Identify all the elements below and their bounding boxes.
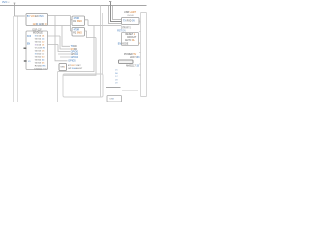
SW1 label rows right — [68, 65, 83, 70]
wire long vertical bus B — [17, 17, 19, 103]
power flag — [14, 3, 16, 6]
svg-text:EN NODE: EN NODE — [118, 44, 129, 46]
wire top-right verticals to header — [109, 6, 122, 24]
wire stub y54 — [58, 53, 70, 55]
svg-text:CIRCUIT: CIRCUIT — [127, 37, 137, 39]
svg-text:IO: IO — [28, 61, 31, 63]
wire R2 right run — [63, 31, 96, 75]
wire bottom-left drop — [57, 72, 59, 102]
svg-text:TXD000 TXD: TXD000 TXD — [34, 68, 47, 70]
svg-text:GIO00 00: GIO00 00 — [35, 57, 45, 59]
R2 series block — [72, 28, 85, 37]
svg-text:470R: 470R — [74, 30, 80, 32]
wire rail drop to U1 left pin — [15, 6, 25, 17]
wire U2 pin stub y36 — [48, 36, 71, 49]
U2 module tall box — [26, 31, 48, 70]
U2 left pin stub 2 — [24, 60, 27, 62]
svg-text:BT RST KEY: BT RST KEY — [68, 65, 81, 67]
left blue pin labels column — [115, 70, 119, 85]
svg-text:AUTO DL: AUTO DL — [125, 39, 136, 42]
svg-text:GIO15 15: GIO15 15 — [35, 51, 45, 53]
wire net drop x55 — [55, 16, 68, 61]
svg-text:R1 SMD: R1 SMD — [73, 21, 82, 23]
svg-text:GIO05 05: GIO05 05 — [35, 63, 45, 65]
wire net drop x62 — [62, 26, 70, 47]
svg-text:USB UART: USB UART — [124, 11, 137, 14]
svg-text:IOD02 02: IOD02 02 — [35, 54, 45, 56]
svg-text:5V VIN EN 3V3: 5V VIN EN 3V3 — [27, 15, 44, 18]
svg-text:GIO14 14: GIO14 14 — [35, 39, 45, 41]
wire stub y57 — [60, 56, 70, 58]
U2 left pin stub 1 — [24, 47, 27, 49]
svg-text:CH340: CH340 — [127, 15, 135, 17]
svg-text:3V3: 3V3 — [27, 36, 32, 38]
wire U1 right top — [48, 15, 71, 17]
svg-text:RXD00 RX: RXD00 RX — [35, 66, 46, 68]
J1 right stub — [139, 20, 141, 22]
U1 regulator box — [26, 14, 48, 26]
J3 bottom connector box — [107, 96, 122, 103]
J2 pin ticks — [139, 22, 140, 75]
svg-text:EN: EN — [27, 43, 31, 45]
svg-text:VCC33 3V: VCC33 3V — [35, 48, 46, 50]
R3 flat bar component — [119, 60, 134, 63]
svg-text:USB: USB — [110, 98, 115, 100]
svg-text:AMS1117 33: AMS1117 33 — [126, 64, 140, 67]
svg-text:IOD13 13: IOD13 13 — [35, 45, 45, 47]
SW1 small box — [59, 64, 67, 71]
U3 block box — [122, 33, 139, 46]
U2 right pin rows — [34, 36, 47, 71]
svg-text:MODULE: MODULE — [33, 32, 43, 34]
wire R1 right — [85, 20, 122, 26]
PCB outline big box — [63, 74, 103, 97]
svg-text:ESP-12F: ESP-12F — [33, 29, 43, 31]
wire vertical junction x70.5 — [71, 16, 73, 32]
wire faint long vertical pair — [100, 6, 102, 97]
wire U1 right bottom — [48, 25, 71, 27]
wire long vertical bus A — [13, 16, 15, 102]
wire right descender — [58, 26, 95, 72]
wire top power rail — [0, 5, 147, 7]
R1 series block — [72, 16, 85, 26]
svg-text:SW1: SW1 — [60, 66, 66, 68]
svg-text:GND GND O: GND GND O — [33, 23, 47, 26]
J1 header box — [122, 18, 140, 25]
svg-text:RESET 1: RESET 1 — [126, 34, 136, 36]
svg-text:GP FLASH BT: GP FLASH BT — [68, 67, 83, 70]
top cap mark — [109, 1, 111, 3]
wire U2 pin stub y44.5 — [48, 45, 71, 52]
svg-text:TX RXD 5V: TX RXD 5V — [123, 20, 135, 22]
svg-text:GPIO5: GPIO5 — [68, 60, 76, 63]
svg-text:LDO V33: LDO V33 — [130, 57, 140, 59]
light line y90.5 — [122, 90, 138, 92]
svg-text:DTR RTS: DTR RTS — [121, 27, 131, 29]
svg-text:R2 SMD: R2 SMD — [73, 32, 82, 34]
svg-text:IOD16 16: IOD16 16 — [35, 36, 45, 38]
svg-text:GIO04 04: GIO04 04 — [35, 60, 45, 62]
svg-text:470R: 470R — [74, 18, 80, 20]
svg-text:GIO12 12: GIO12 12 — [35, 42, 45, 44]
svg-text:POWER 5V: POWER 5V — [124, 54, 137, 56]
J2 tall pin strip — [141, 13, 147, 97]
wire fragment y87.5 — [106, 87, 121, 89]
